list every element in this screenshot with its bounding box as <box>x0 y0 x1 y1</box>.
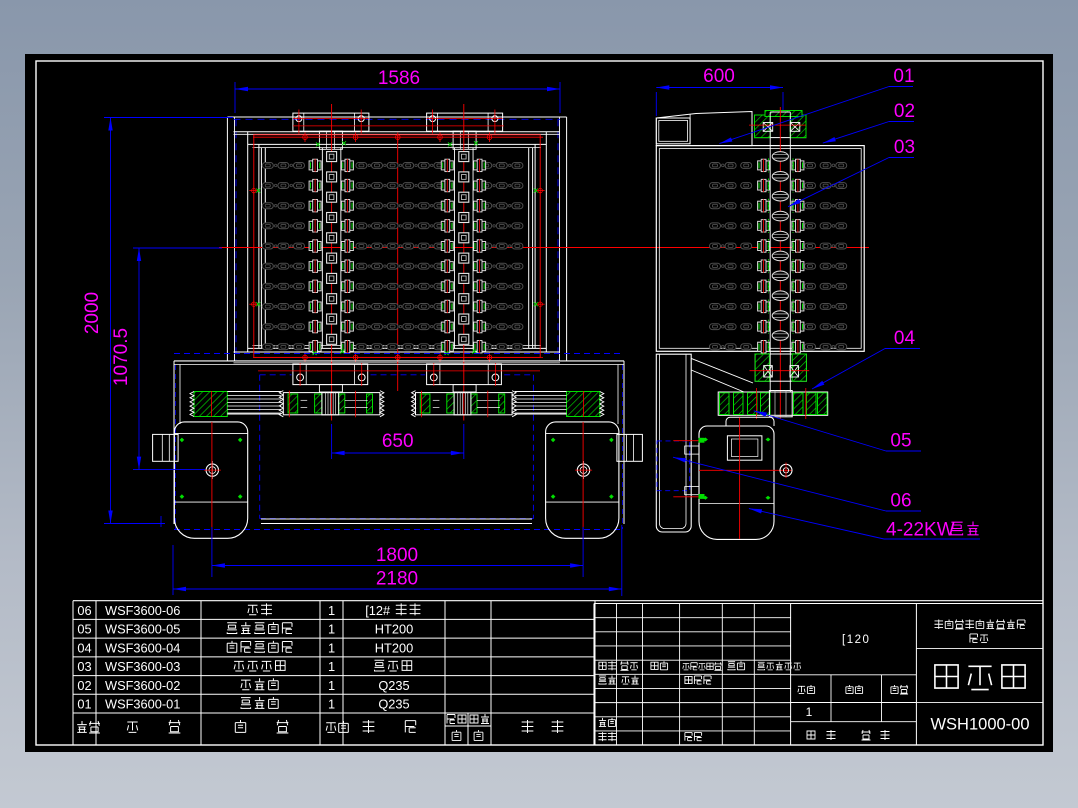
top bearing hatch strip <box>765 111 802 117</box>
V-belt stack right <box>567 392 600 417</box>
front view: top mounting lug left <box>293 113 369 131</box>
front view: top mounting lug right <box>427 113 503 131</box>
svg-text:650: 650 <box>382 431 414 452</box>
top bearing centerline (red) <box>749 124 806 126</box>
bearing plate left <box>293 364 368 385</box>
base frame hidden line top (blue dashed) <box>174 353 624 355</box>
motor label CJK dianji <box>951 522 978 535</box>
main shaft pulley right <box>416 393 513 415</box>
dim 1070.5 <box>138 248 140 470</box>
brace from column to drive <box>691 358 753 383</box>
motor right (front view) <box>546 422 619 538</box>
svg-text:WSH1000-00: WSH1000-00 <box>930 716 1029 734</box>
side motor shaft circle <box>780 464 792 476</box>
svg-text:05: 05 <box>77 622 91 637</box>
bolt line on top flange (red) <box>293 125 504 127</box>
svg-text:03: 03 <box>77 659 91 674</box>
svg-text:1: 1 <box>328 678 335 693</box>
svg-text:1070.5: 1070.5 <box>111 328 132 386</box>
label shenhe <box>599 718 616 727</box>
svg-text:04: 04 <box>77 640 91 655</box>
side motor mounting tabs <box>685 446 699 454</box>
side view: top bearing housing (item 01 area) <box>755 115 807 138</box>
svg-text:1586: 1586 <box>378 68 420 89</box>
svg-text:03: 03 <box>894 137 915 158</box>
svg-text:1: 1 <box>328 697 335 712</box>
front view: shaft columns <box>321 148 323 349</box>
title block outline <box>594 603 1043 605</box>
svg-text:2180: 2180 <box>376 569 418 590</box>
horizontal centerline through both views (red) <box>219 247 869 249</box>
part name row 06 <box>248 603 272 615</box>
base frame hidden line bottom (blue dashed) <box>174 529 624 531</box>
label biaozhunhua <box>685 676 711 684</box>
label biaoji <box>599 661 616 670</box>
header danjian <box>447 715 466 724</box>
company name line1 <box>934 620 1024 630</box>
label sheji <box>599 676 616 685</box>
svg-text:HT200: HT200 <box>375 640 413 655</box>
front view: main shaft centerline left (red) <box>331 104 333 421</box>
side view: shaft column walls <box>769 146 771 352</box>
side view: casing box <box>656 146 864 352</box>
svg-text:HT200: HT200 <box>375 622 413 637</box>
label qianming <box>728 661 745 670</box>
svg-text:02: 02 <box>894 101 915 122</box>
svg-text:WSF3600-02: WSF3600-02 <box>105 678 180 693</box>
svg-text:01: 01 <box>893 66 914 87</box>
label fenqu <box>651 661 668 670</box>
front view: hammer chain rows <box>262 163 273 169</box>
svg-text:1: 1 <box>328 603 335 618</box>
dim 1070.5 extension lines <box>133 247 222 249</box>
svg-text:WSF3600-03: WSF3600-03 <box>105 659 180 674</box>
svg-text:1: 1 <box>328 659 335 674</box>
label chushu <box>620 661 637 670</box>
dim 600 extension lines <box>655 92 657 116</box>
dim 2000 <box>110 118 112 524</box>
casing top hidden line (blue dashed) <box>234 118 561 120</box>
header xuhao <box>77 721 100 733</box>
header shuliang <box>326 721 348 732</box>
label gongyi <box>598 732 616 741</box>
base frame right legs <box>617 365 619 425</box>
part name row 03 <box>234 661 285 671</box>
front view: top flange <box>234 131 561 133</box>
small blue tick near base bottom <box>160 516 162 527</box>
title block right: drawing title zongzhuangtu <box>916 702 1043 704</box>
svg-text:600: 600 <box>703 66 735 87</box>
dim 650 <box>332 452 464 454</box>
part name row 05 <box>227 622 292 633</box>
base frame bottom rails <box>261 518 532 520</box>
belt centerline ticks at motor centers (red) <box>211 391 213 417</box>
title zong zhuang tu <box>935 665 1025 690</box>
dim 600 <box>656 87 783 89</box>
svg-text:1: 1 <box>806 705 813 719</box>
svg-text:2000: 2000 <box>82 292 103 334</box>
front view: shaft link plates (left shaft) <box>327 152 337 162</box>
front view: inner chamber split line (red rect) <box>254 135 540 358</box>
svg-text:04: 04 <box>894 328 916 349</box>
bearing plate right <box>427 364 502 385</box>
svg-text:1800: 1800 <box>376 545 418 566</box>
svg-text:4-22KW: 4-22KW <box>886 520 955 541</box>
svg-text:WSF3600-06: WSF3600-06 <box>105 603 180 618</box>
support column hidden belt (blue dashed) <box>657 441 690 491</box>
dim 1800 extension lines <box>211 527 213 577</box>
base frame top rails <box>174 360 624 362</box>
side view: motor <box>699 426 774 539</box>
label zhang <box>827 730 836 740</box>
dim 650 extension lines <box>331 424 333 459</box>
svg-text:[12#: [12# <box>365 603 391 618</box>
side view: shaft disc links <box>772 152 788 162</box>
dim 1586 <box>235 88 560 90</box>
top bearing bolt squares <box>763 123 773 132</box>
part name row 02 <box>241 678 278 689</box>
label gong <box>807 731 815 739</box>
label pizhun <box>685 733 702 741</box>
V-belt stack left (motor pulley item 05) <box>194 392 227 417</box>
side view: shaft top <box>769 112 771 146</box>
svg-text:Q235: Q235 <box>378 678 409 693</box>
side view: support column (item 06 area) <box>656 354 691 532</box>
svg-text:WSF3600-01: WSF3600-01 <box>105 697 180 712</box>
front view: main shaft centerline right (red) <box>463 104 465 421</box>
green fit marks bottom <box>313 351 317 355</box>
green fit marks top <box>316 142 320 146</box>
svg-text:06: 06 <box>77 603 91 618</box>
company name line2 <box>970 634 988 643</box>
front view: bottom flange <box>248 347 546 349</box>
motor left (front view) <box>174 422 247 538</box>
base frame inner boundary (blue dashed) <box>260 374 292 376</box>
pulley centerlines (red) <box>756 388 758 419</box>
title block right section: company name <box>916 647 1043 649</box>
name wufei <box>622 676 639 685</box>
side view: shaft between bearing and pulley <box>769 351 771 392</box>
red line through bearing plates <box>258 370 540 372</box>
side view: feed inlet <box>656 112 752 146</box>
part name row 01 <box>241 697 278 708</box>
side motor centerlines <box>739 418 741 540</box>
label gengai wenjianhao <box>683 662 722 670</box>
bottom flange rivet line (red with dots) <box>253 356 543 358</box>
front view: vertical centerline (red) <box>397 134 399 391</box>
label shuliang <box>798 685 815 694</box>
title block left section grid <box>594 617 791 619</box>
bottom bearing centerline (red) <box>750 370 810 372</box>
header cailiao <box>363 720 375 733</box>
label zhang2 <box>881 730 890 740</box>
label zhongliang <box>846 685 863 694</box>
label di <box>862 730 871 740</box>
side view: bottom bearing housing <box>755 354 806 381</box>
casing side hidden lines (blue dashed) <box>235 119 237 360</box>
svg-text:05: 05 <box>890 431 911 452</box>
base frame left legs <box>173 361 175 524</box>
header mingcheng <box>235 720 245 732</box>
dim 1586 extension lines <box>234 82 236 113</box>
main shaft pulley left (item 04) <box>283 393 380 415</box>
parts list table grid <box>73 600 1043 602</box>
svg-text:06: 06 <box>890 491 911 512</box>
svg-text:Q235: Q235 <box>378 697 409 712</box>
side view: pulley assembly (items 04/05) <box>718 392 828 415</box>
svg-text:1: 1 <box>328 622 335 637</box>
svg-text:02: 02 <box>77 678 91 693</box>
svg-text:1: 1 <box>328 640 335 655</box>
side view: shaft centerline (red) <box>779 107 781 419</box>
svg-text:WSF3600-05: WSF3600-05 <box>105 622 180 637</box>
svg-text:[120: [120 <box>842 634 870 646</box>
side view: hammer chain rows <box>710 163 721 169</box>
label nian yue ri <box>758 662 801 670</box>
front view: shaft link plates (right shaft) <box>459 152 469 162</box>
dim 2180 extension lines <box>172 545 174 595</box>
label bili <box>891 685 908 694</box>
svg-text:WSF3600-04: WSF3600-04 <box>105 640 180 655</box>
sheet border frame <box>36 61 1043 745</box>
top flange rivet line (red with dots) <box>253 136 543 138</box>
header daihao <box>127 722 137 732</box>
dim 2000 extension lines <box>104 117 233 119</box>
dim 2180 <box>173 588 622 590</box>
dim 1800 <box>212 565 583 567</box>
front view: crusher casing outer box <box>227 116 566 118</box>
part name row 04 <box>227 641 292 652</box>
side motor green marks <box>703 438 708 442</box>
header beizhu <box>522 720 534 733</box>
chamber rect bolt dots <box>252 188 256 192</box>
svg-text:01: 01 <box>77 697 91 712</box>
